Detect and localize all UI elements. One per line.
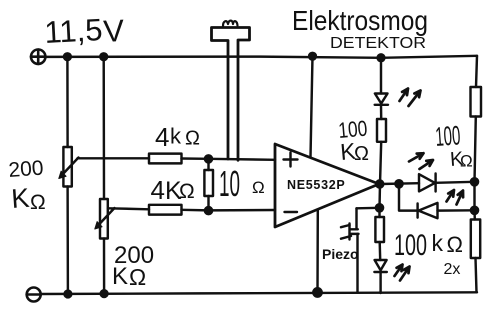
LED D2 <box>419 174 435 191</box>
wire R6 to bottom rail <box>476 258 477 292</box>
wire top rail to LED D1 <box>380 58 382 94</box>
resistor R2 4k body <box>149 205 182 215</box>
terminal plus <box>31 50 45 64</box>
op-amp plus marker <box>284 153 298 167</box>
wire piezo branch horizontal <box>357 207 380 210</box>
op-amp minus marker <box>285 211 298 213</box>
wire top rail <box>45 56 477 58</box>
svg-text:k: k <box>432 230 444 256</box>
wire D2 to right node <box>436 182 475 183</box>
svg-text:100: 100 <box>394 229 427 262</box>
node right junction top <box>471 178 478 185</box>
wire R2 to opamp minus input <box>182 209 276 212</box>
node output junction 2 <box>395 180 402 187</box>
svg-text:Ω: Ω <box>179 180 195 203</box>
node V- bottom junction <box>313 288 321 296</box>
resistor R1 4k body <box>149 154 182 164</box>
svg-text:2x: 2x <box>444 261 461 278</box>
LED D2 arrows <box>409 153 424 161</box>
node output junction <box>376 180 383 187</box>
svg-text:100: 100 <box>434 120 461 152</box>
wire V- supply <box>316 210 319 293</box>
wire R4 to output node <box>380 142 381 184</box>
wire V+ supply <box>311 57 313 157</box>
piezo element <box>355 208 357 229</box>
wire bottom rail <box>41 292 477 294</box>
potentiometer P1 wiper arrow <box>62 158 79 176</box>
svg-text:Ω: Ω <box>30 191 46 214</box>
wire output to LED D2 <box>380 182 419 185</box>
svg-text:Ω: Ω <box>252 178 265 197</box>
wire to resistor R7 <box>378 208 380 217</box>
svg-text:Ω: Ω <box>447 232 463 257</box>
node top-rail junction 1 <box>64 53 71 60</box>
svg-text:Elektrosmog: Elektrosmog <box>292 5 428 36</box>
node A junction <box>205 155 212 162</box>
antenna <box>212 21 250 161</box>
node bottom-rail junction 2 <box>101 290 108 297</box>
svg-text:Ω: Ω <box>460 152 473 171</box>
wire pot P1 branch <box>66 57 69 147</box>
svg-text:200: 200 <box>8 157 45 182</box>
svg-text:Ω: Ω <box>354 143 369 165</box>
potentiometer P2 200K body <box>100 199 108 239</box>
svg-text:k: k <box>170 124 182 149</box>
potentiometer P1 200K body <box>63 147 71 187</box>
wire P2 wiper to R2 <box>108 208 149 209</box>
svg-text:4: 4 <box>151 175 165 205</box>
resistor R5 100K body <box>471 87 482 117</box>
svg-text:Ω: Ω <box>185 128 200 150</box>
wire drop to LED D3 <box>399 184 418 211</box>
node right junction bottom <box>471 207 478 214</box>
node top-rail junction 2 <box>100 53 107 60</box>
svg-text:V: V <box>103 13 126 49</box>
potentiometer P2 wiper arrow <box>98 208 115 226</box>
LED D3 arrows <box>447 190 455 202</box>
node V+ junction <box>309 53 316 60</box>
svg-text:NE5532P: NE5532P <box>287 178 345 192</box>
node piezo junction <box>376 204 383 211</box>
wire R5 to right node <box>475 117 476 182</box>
wire top-right branch <box>476 56 477 87</box>
wire D3 to right node <box>438 209 475 212</box>
wire D1 to R4 <box>380 105 383 119</box>
svg-text:11,5: 11,5 <box>44 12 104 50</box>
resistor R4 100K body <box>377 119 386 142</box>
LED D1 arrows <box>400 89 409 102</box>
node bottom-rail junction 1 <box>65 291 72 298</box>
wire R7 to LED D4 <box>378 242 381 260</box>
resistor R7 body <box>375 217 384 242</box>
node B junction <box>205 207 212 214</box>
LED D4 arrows <box>395 265 403 277</box>
wire pot P2 branch <box>102 57 105 199</box>
svg-text:Piezo: Piezo <box>322 246 359 262</box>
svg-text:K: K <box>112 263 128 290</box>
LED D1 <box>375 94 388 104</box>
wire opamp output to piezo branch <box>378 184 381 208</box>
resistor R3 10 Ohm body <box>207 159 209 170</box>
node top-rail junction LED chain <box>378 54 385 61</box>
terminal minus <box>27 288 41 302</box>
wire P1 wiper to R1 <box>78 157 150 159</box>
resistor R6 100K 2x body <box>471 220 480 259</box>
svg-text:4: 4 <box>155 122 169 152</box>
svg-text:10: 10 <box>219 163 240 204</box>
wire right vertical link <box>473 182 475 211</box>
op-amp U1 NE5532P <box>275 144 379 227</box>
wire D4 to bottom rail <box>379 272 381 293</box>
wire bottom-right branch <box>473 210 476 219</box>
svg-text:DETEKTOR: DETEKTOR <box>330 35 426 52</box>
svg-text:K: K <box>10 183 30 214</box>
LED D3 <box>419 203 438 218</box>
LED D4 <box>375 260 387 270</box>
wire R1 to opamp plus input <box>182 159 276 160</box>
svg-text:Ω: Ω <box>129 264 146 290</box>
